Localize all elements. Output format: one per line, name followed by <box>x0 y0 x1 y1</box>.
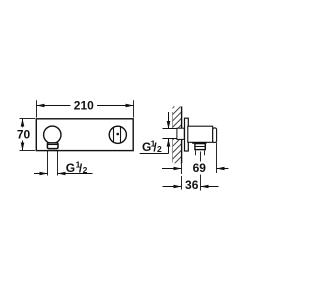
knob connection nut <box>47 143 58 149</box>
dimension G1/2 (side view) <box>140 112 171 155</box>
hose nipple <box>195 144 205 150</box>
diverter knob circle (front view) <box>44 126 61 143</box>
wall union body (side view) <box>188 126 213 142</box>
svg-text:2: 2 <box>83 165 88 175</box>
svg-text:36: 36 <box>185 178 199 192</box>
dimension 70 <box>17 119 35 151</box>
svg-text:210: 210 <box>74 98 94 112</box>
supply stub through wall <box>163 128 185 139</box>
svg-text:2: 2 <box>157 144 162 154</box>
dimension 36 <box>163 175 219 193</box>
svg-text:69: 69 <box>193 161 207 175</box>
escutcheon plate (side view) <box>185 118 189 151</box>
dimension G1/2 (front view) <box>34 151 93 176</box>
shower rail bar (front view) <box>36 119 133 151</box>
dimension 210 <box>37 98 134 117</box>
outlet centerline <box>200 152 202 162</box>
nipple whiskers <box>196 150 205 155</box>
hose outlet holder circle (front view) <box>109 126 126 143</box>
wall section hatch <box>173 107 182 164</box>
wall face line <box>181 107 183 164</box>
dimension 69 <box>162 143 229 176</box>
svg-text:70: 70 <box>17 127 31 141</box>
body end cap <box>213 128 217 143</box>
outlet flange <box>192 142 207 144</box>
svg-text:G: G <box>66 161 75 175</box>
